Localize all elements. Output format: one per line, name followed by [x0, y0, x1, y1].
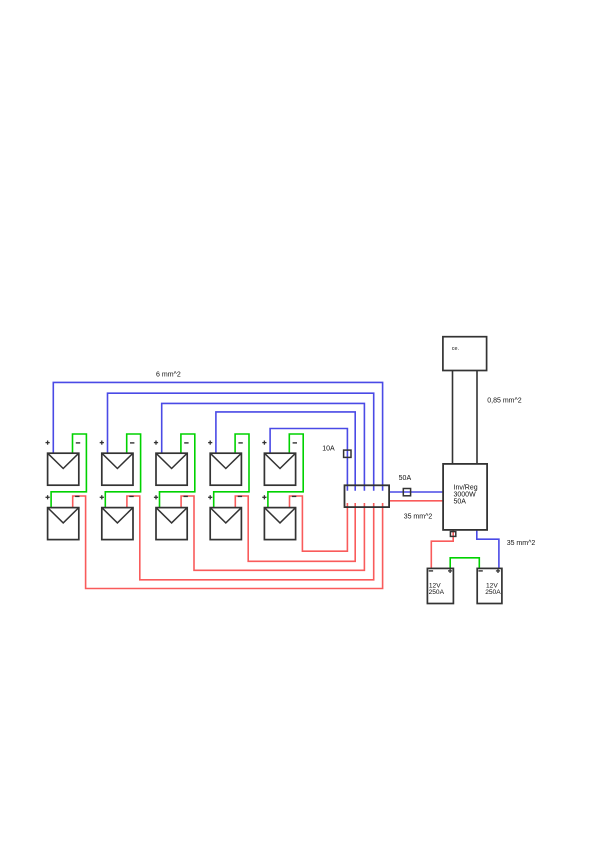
terminal - of battery BT2 — [478, 570, 482, 572]
CE monitoring unit U2 — [443, 337, 487, 371]
label 10A for fuse F1 — [322, 446, 335, 453]
terminal + of PV3A — [154, 441, 158, 445]
wire 0,85mm2 pair: Inv/Reg to CE unit (left conductor) — [452, 371, 454, 464]
wire red: panel PV5B - terminal to combiner slot 5 — [290, 496, 348, 551]
terminal - of PV5A — [293, 442, 297, 444]
solar panel PV5A (top row, column 5) — [264, 453, 295, 485]
solar panel PV1A (top row, column 1) — [48, 453, 79, 485]
fuse F3 on battery positive lead — [450, 532, 455, 537]
solar panel PV1B (bottom row, column 1) — [48, 508, 79, 540]
solar panel PV4A (top row, column 4) — [210, 453, 241, 485]
svg-text:3000W: 3000W — [454, 491, 477, 498]
svg-text:250A: 250A — [429, 589, 445, 596]
terminal - of PV3B — [184, 495, 188, 497]
terminal + of PV4A — [208, 441, 212, 445]
svg-text:10A: 10A — [322, 446, 335, 453]
terminal - of battery BT1 — [429, 570, 433, 572]
fuse F2 50A on combiner output — [403, 489, 410, 496]
terminal + of PV1B — [46, 495, 50, 499]
terminal - of PV2B — [129, 495, 133, 497]
terminal + of battery BT1 — [448, 569, 452, 573]
solar panel PV3B (bottom row, column 3) — [156, 508, 187, 540]
wire 6mm2 blue: panel PV4A + terminal to combiner slot 4 — [216, 412, 355, 491]
junction box / combiner busbar — [345, 485, 390, 507]
wire red: panel PV3B - terminal to combiner slot 3 — [181, 496, 364, 570]
terminal + of battery BT2 — [496, 569, 500, 573]
terminal + of PV4B — [208, 495, 212, 499]
terminal - of PV4B — [238, 495, 242, 497]
wire green: panel PV1A - terminal to panel PV1B + terminal (series link) — [51, 434, 86, 508]
wire green: battery BT1 - to battery BT2 + (series link) — [450, 558, 479, 569]
svg-text:50A: 50A — [454, 499, 467, 506]
terminal + of PV2B — [100, 495, 104, 499]
wire 35mm2 blue: combiner + output to Inv/Reg via fuse F2 — [389, 491, 443, 493]
terminal - of PV1A — [76, 442, 80, 444]
svg-text:250A: 250A — [485, 589, 501, 596]
wire green: panel PV2A - terminal to panel PV2B + terminal (series link) — [105, 434, 140, 508]
solar panel PV2A (top row, column 2) — [102, 453, 133, 485]
wire 6mm2 blue: panel PV3A + terminal to combiner slot 3 — [162, 403, 365, 490]
solar panel PV2B (bottom row, column 2) — [102, 508, 133, 540]
wire green: panel PV5A - terminal to panel PV5B + terminal (series link) — [268, 434, 303, 508]
terminal + of PV5B — [262, 495, 266, 499]
wire green: panel PV4A - terminal to panel PV4B + terminal (series link) — [214, 434, 249, 508]
wire 0,85mm2 pair: Inv/Reg to CE unit (right conductor) — [476, 371, 478, 464]
solar panel PV5B (bottom row, column 5) — [264, 508, 295, 540]
wire green: panel PV3A - terminal to panel PV3B + terminal (series link) — [160, 434, 195, 508]
wire red: panel PV2B - terminal to combiner slot 2 — [127, 496, 374, 580]
label 6 mm^2 string cable size — [156, 372, 181, 379]
terminal - of PV4A — [238, 442, 242, 444]
inverter/regulator U1 Inv/Reg 3000W 50A — [443, 464, 487, 530]
svg-text:50A: 50A — [399, 475, 412, 482]
svg-text:Inv/Reg: Inv/Reg — [454, 484, 478, 491]
svg-text:35 mm^2: 35 mm^2 — [404, 514, 433, 521]
fuse F1 10A on string 5 blue wire — [344, 450, 351, 457]
terminal + of PV3B — [154, 495, 158, 499]
svg-text:35 mm^2: 35 mm^2 — [507, 540, 536, 547]
terminal - of PV3A — [184, 442, 188, 444]
terminal - of PV5B — [292, 495, 296, 497]
battery BT1 12V 250A — [427, 568, 453, 603]
label 35 mm^2 combiner-inverter cable size — [404, 514, 433, 521]
terminal + of PV5A — [262, 441, 266, 445]
terminal - of PV1B — [75, 495, 79, 497]
label 0,85 mm^2 CE cable size — [487, 398, 522, 405]
label 50A for fuse F2 — [399, 475, 412, 482]
wire 6mm2 blue: panel PV2A + terminal to combiner slot 2 — [108, 393, 374, 491]
wire 6mm2 blue: panel PV1A + terminal to combiner slot 1 — [53, 382, 382, 490]
terminal + of PV1A — [46, 441, 50, 445]
wire red: panel PV1B - terminal to combiner slot 1 — [73, 496, 383, 589]
label 35 mm^2 battery cable size — [507, 540, 536, 547]
battery BT2 12V 250A — [477, 568, 502, 603]
solar panel PV3A (top row, column 3) — [156, 453, 187, 485]
terminal + of PV2A — [100, 441, 104, 445]
wire red: Inv/Reg battery + output through fuse F3 to battery BT1 + — [431, 530, 453, 569]
wire 6mm2 blue: panel PV5A + terminal to combiner slot 5 — [270, 429, 347, 491]
wire red: panel PV4B - terminal to combiner slot 4 — [235, 496, 355, 561]
solar panel PV4B (bottom row, column 4) — [210, 508, 241, 540]
svg-text:6 mm^2: 6 mm^2 — [156, 372, 181, 379]
svg-text:0,85 mm^2: 0,85 mm^2 — [487, 398, 522, 405]
svg-text:ce.: ce. — [452, 346, 459, 352]
terminal - of PV2A — [130, 442, 134, 444]
wire 35mm2 red: combiner - output to Inv/Reg — [389, 500, 443, 502]
wire blue: Inv/Reg battery - output to battery BT2 - — [477, 530, 499, 569]
